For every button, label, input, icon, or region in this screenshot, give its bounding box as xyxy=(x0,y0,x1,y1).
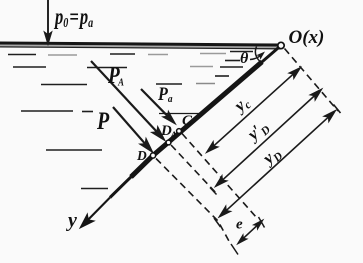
svg-text:e: e xyxy=(236,217,243,233)
end ticks on dashed lines xyxy=(210,188,265,255)
free surface double line xyxy=(0,43,281,49)
dashed line from D xyxy=(156,159,230,243)
point D circle xyxy=(150,153,155,158)
svg-text:y: y xyxy=(66,210,77,232)
point O circle xyxy=(278,42,284,48)
label yD (rotated) xyxy=(257,142,286,171)
label yc (rotated) xyxy=(229,92,254,117)
label y'D (rotated) xyxy=(242,116,273,147)
point C circle xyxy=(177,129,182,134)
PA force arrow xyxy=(91,61,164,139)
label p0 = pa xyxy=(53,4,93,30)
yD dimension line xyxy=(220,111,335,217)
svg-text:θ: θ xyxy=(240,50,249,67)
y'D dimension line xyxy=(216,90,321,187)
svg-text:O(x): O(x) xyxy=(289,27,325,48)
svg-text:p0=pa: p0=pa xyxy=(53,4,93,30)
p0 arrow xyxy=(45,0,51,43)
theta arc and leader xyxy=(250,47,263,62)
label P xyxy=(96,107,109,135)
svg-text:D: D xyxy=(136,148,147,163)
P force arrow xyxy=(113,107,152,151)
label PA xyxy=(107,62,124,89)
svg-text:P: P xyxy=(96,107,109,135)
e dimension xyxy=(238,221,262,244)
inclined plane (thick) with y axis arrow xyxy=(80,46,281,229)
dashed line from C xyxy=(182,134,257,218)
Pa force arrow xyxy=(141,89,174,123)
dashed line from D' xyxy=(171,145,217,194)
label Pa xyxy=(157,83,172,105)
water dashes xyxy=(8,52,253,189)
yc dimension line xyxy=(207,68,300,152)
point D' circle xyxy=(166,140,171,145)
dashed line from O xyxy=(285,49,341,114)
horizontal line at C xyxy=(159,113,204,115)
svg-text:C: C xyxy=(182,113,193,129)
